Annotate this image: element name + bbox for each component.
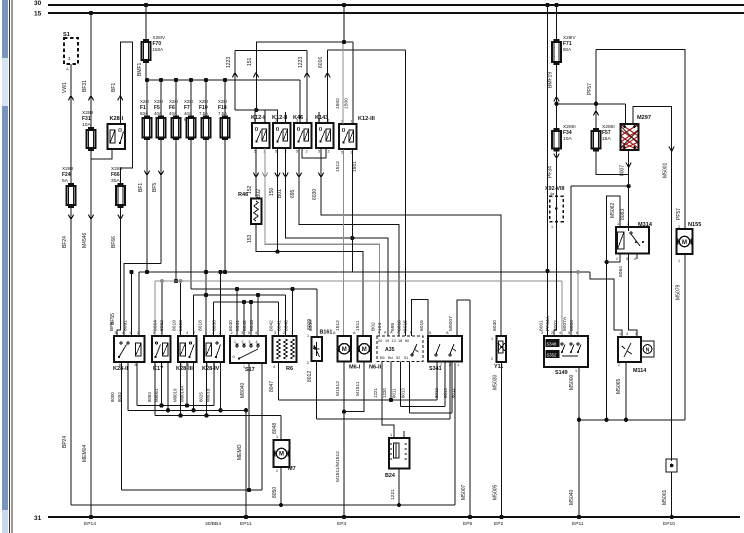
wire BF1 net from F1 to rail bbox=[146, 140, 148, 272]
svg-text:1221: 1221 bbox=[373, 388, 378, 398]
svg-text:4: 4 bbox=[256, 340, 258, 344]
wire PF34 bbox=[556, 151, 558, 197]
wire drop to fuse F1 bbox=[146, 80, 148, 116]
svg-text:R46: R46 bbox=[238, 192, 248, 198]
svg-text:M8018: M8018 bbox=[206, 388, 211, 402]
svg-text:8023: 8023 bbox=[178, 320, 184, 331]
ground connector box bbox=[666, 459, 677, 472]
svg-text:X28I: X28I bbox=[199, 99, 208, 104]
wire BMF19 bbox=[556, 64, 558, 130]
svg-text:5: 5 bbox=[318, 150, 320, 154]
wire 152 from K12-I to R46 bbox=[255, 148, 257, 197]
svg-text:EP14: EP14 bbox=[84, 521, 96, 527]
bridge A35 pin60 to S341 pin5 net 8015 bbox=[412, 300, 429, 337]
fuse F6 bbox=[172, 118, 181, 138]
wire M5001 to bus31 bbox=[671, 472, 673, 517]
wire M314 pin2 down 8084 bbox=[607, 254, 620, 263]
svg-text:8012: 8012 bbox=[434, 388, 439, 398]
svg-text:K28-IV: K28-IV bbox=[202, 366, 220, 372]
svg-text:3: 3 bbox=[541, 331, 543, 335]
svg-text:8083: 8083 bbox=[147, 392, 152, 402]
page border double line bbox=[9, 0, 11, 533]
wire B01 from K12-II to A35 via y238 bbox=[286, 148, 389, 336]
svg-text:F34: F34 bbox=[563, 130, 572, 136]
wire F31 to K28-I pin bbox=[91, 150, 112, 160]
wire Y11 ground M5030 bbox=[501, 362, 503, 517]
svg-text:B02: B02 bbox=[256, 189, 262, 198]
svg-text:6: 6 bbox=[119, 363, 121, 367]
svg-text:10A: 10A bbox=[563, 136, 572, 142]
svg-text:2: 2 bbox=[616, 257, 618, 261]
svg-text:M: M bbox=[279, 452, 284, 458]
wire K143 left pin stub bbox=[318, 112, 320, 123]
svg-text:8013: 8013 bbox=[401, 388, 406, 398]
svg-text:8092: 8092 bbox=[117, 392, 122, 402]
rail y288 bbox=[191, 288, 317, 290]
riser R6 pin3 bbox=[292, 289, 294, 336]
svg-text:M5079: M5079 bbox=[676, 284, 682, 300]
svg-text:5: 5 bbox=[341, 151, 343, 155]
wire from F7 to rail y288 bbox=[190, 140, 192, 289]
svg-text:B24: B24 bbox=[385, 473, 395, 479]
resistor pack R6 bbox=[273, 336, 297, 362]
svg-text:8041: 8041 bbox=[277, 320, 283, 331]
wire from bus 30 to F70 bbox=[144, 3, 148, 7]
svg-text:8016: 8016 bbox=[396, 320, 402, 331]
svg-text:X28I: X28I bbox=[184, 99, 193, 104]
svg-text:8015: 8015 bbox=[403, 320, 409, 331]
fuse F71 bbox=[552, 42, 561, 62]
svg-text:BF24: BF24 bbox=[62, 236, 68, 248]
motor M6-I bbox=[338, 336, 352, 362]
svg-text:1221: 1221 bbox=[390, 489, 396, 500]
switch unit S149 bbox=[544, 336, 588, 367]
svg-text:EP11: EP11 bbox=[572, 521, 584, 527]
svg-text:8011: 8011 bbox=[392, 388, 397, 398]
svg-text:8046: 8046 bbox=[284, 320, 290, 331]
wire BF31 from bus 15 bbox=[89, 11, 93, 15]
svg-text:8084: 8084 bbox=[618, 266, 624, 277]
svg-text:2: 2 bbox=[328, 150, 330, 154]
fuse feed rail y80 bbox=[146, 79, 301, 81]
svg-text:8012: 8012 bbox=[307, 371, 313, 382]
wire F57 feed from rail bbox=[595, 104, 597, 130]
svg-text:M297: M297 bbox=[637, 115, 651, 121]
valve Y11 bbox=[497, 336, 507, 362]
svg-text:30/BB4: 30/BB4 bbox=[205, 521, 221, 527]
svg-text:B5: B5 bbox=[380, 356, 385, 360]
rail BF5 y281 across page gray bbox=[155, 280, 562, 282]
wire S341 pin A to M5007 ground bbox=[457, 300, 470, 336]
wire 8007 M297 out bbox=[628, 150, 630, 231]
svg-text:K143: K143 bbox=[315, 115, 328, 121]
svg-text:EP2: EP2 bbox=[494, 521, 504, 527]
wire M6 motors ground bbox=[343, 362, 345, 518]
wire BF24 bbox=[70, 207, 72, 505]
svg-text:X28I: X28I bbox=[218, 99, 227, 104]
svg-text:5: 5 bbox=[296, 150, 298, 154]
svg-text:8062: 8062 bbox=[159, 320, 165, 331]
svg-text:M: M bbox=[682, 240, 687, 246]
svg-text:BF5: BF5 bbox=[109, 322, 115, 331]
svg-text:B02: B02 bbox=[371, 322, 377, 331]
svg-text:M5040: M5040 bbox=[569, 489, 575, 505]
wire 8009 to B161 bbox=[316, 289, 318, 336]
wire M5062 from M314 pin1 bbox=[607, 196, 620, 420]
wire from F18 bbox=[224, 140, 226, 272]
svg-text:8042: 8042 bbox=[268, 320, 274, 331]
rail y295 bbox=[194, 294, 286, 296]
svg-text:X28I: X28I bbox=[154, 99, 163, 104]
svg-text:1512: 1512 bbox=[335, 320, 341, 331]
svg-text:1: 1 bbox=[551, 225, 553, 229]
svg-text:2: 2 bbox=[283, 331, 285, 335]
svg-text:M5001: M5001 bbox=[663, 162, 669, 178]
svg-text:18: 18 bbox=[398, 339, 402, 343]
svg-text:S17: S17 bbox=[245, 367, 255, 373]
wire rail42 to bus30 bbox=[343, 5, 345, 42]
svg-text:2: 2 bbox=[618, 363, 620, 367]
svg-text:8011: 8011 bbox=[451, 388, 456, 398]
svg-text:150: 150 bbox=[269, 187, 275, 196]
wire R6 bottom 8047 to rail400 bbox=[278, 362, 280, 401]
wire B24 feed from A35 bbox=[382, 362, 394, 439]
svg-text:20: 20 bbox=[378, 339, 382, 343]
fuse F18 bbox=[221, 118, 230, 138]
svg-text:40A: 40A bbox=[154, 111, 162, 116]
wire M7 drop bbox=[280, 467, 282, 505]
svg-text:1: 1 bbox=[390, 433, 392, 437]
svg-text:30: 30 bbox=[34, 0, 42, 7]
riser S149 pin6 bbox=[577, 272, 579, 336]
wire 6030 from K143 to Y11 bbox=[321, 148, 501, 336]
wire VW1 from S1 bbox=[70, 64, 72, 184]
svg-text:8047: 8047 bbox=[269, 381, 275, 392]
svg-text:8004: 8004 bbox=[569, 320, 575, 331]
wire F57 out to 8007 node bbox=[596, 151, 629, 175]
fuse F5 bbox=[157, 118, 166, 138]
wire M297 right pin to M5001 bbox=[633, 107, 672, 462]
svg-text:N155: N155 bbox=[688, 222, 701, 228]
svg-text:2: 2 bbox=[137, 331, 139, 335]
svg-text:PF57: PF57 bbox=[587, 83, 593, 95]
wire BF5 net from F5 bridge to K28-II pin1 bbox=[160, 140, 162, 264]
fuse F34 bbox=[552, 131, 561, 149]
svg-text:BF1: BF1 bbox=[138, 183, 144, 192]
svg-text:3: 3 bbox=[249, 340, 251, 344]
svg-text:F24: F24 bbox=[62, 172, 71, 178]
svg-text:8041: 8041 bbox=[235, 320, 241, 331]
svg-text:BMF1: BMF1 bbox=[137, 62, 143, 76]
svg-text:8042: 8042 bbox=[242, 320, 248, 331]
rails under K-row bbox=[137, 405, 214, 407]
fuse F57 bbox=[592, 131, 601, 149]
motor M7 bbox=[274, 440, 290, 467]
svg-text:1223: 1223 bbox=[226, 57, 232, 68]
risers S17 bbox=[236, 289, 238, 336]
fuse F24 bbox=[67, 186, 76, 205]
wire BMF1 bbox=[145, 62, 147, 80]
svg-text:8036: 8036 bbox=[212, 320, 218, 331]
svg-text:X28I: X28I bbox=[140, 99, 149, 104]
bridge y186 to S149 pin5 bbox=[571, 185, 629, 187]
wire to S149 pin4 bbox=[561, 281, 563, 336]
svg-text:1: 1 bbox=[307, 334, 309, 338]
wire drop to fuse F6 bbox=[175, 80, 177, 116]
rail y406.5 bbox=[401, 406, 446, 408]
risers K-row top bbox=[131, 272, 133, 336]
wire 8001 long drop from bus30 to S149 bbox=[545, 3, 549, 7]
svg-text:1: 1 bbox=[575, 369, 577, 373]
svg-text:5: 5 bbox=[626, 257, 628, 261]
svg-text:2: 2 bbox=[551, 331, 553, 335]
svg-text:5: 5 bbox=[153, 331, 155, 335]
svg-text:1: 1 bbox=[234, 340, 236, 344]
svg-text:2: 2 bbox=[307, 361, 309, 365]
svg-text:4: 4 bbox=[186, 331, 188, 335]
wire drop to fuse F10 bbox=[205, 80, 207, 116]
svg-text:3: 3 bbox=[296, 119, 298, 123]
relay K28-III bbox=[178, 336, 197, 362]
svg-text:M8061: M8061 bbox=[154, 388, 159, 402]
wire from F10 through to K28-IV pin1 bbox=[205, 140, 207, 336]
svg-text:8064: 8064 bbox=[153, 320, 159, 331]
svg-text:15A: 15A bbox=[602, 136, 611, 142]
motor unit M114 bbox=[618, 337, 641, 362]
svg-text:52: 52 bbox=[396, 356, 400, 360]
svg-text:S352: S352 bbox=[547, 353, 557, 358]
rail y419.8 motor grounds bbox=[579, 419, 685, 421]
svg-text:2: 2 bbox=[231, 331, 233, 335]
svg-text:8048: 8048 bbox=[272, 423, 278, 434]
rail y490 bbox=[122, 489, 263, 491]
svg-text:R6: R6 bbox=[286, 366, 293, 372]
wire 695 from K46 to A35 bbox=[299, 148, 399, 336]
svg-text:M5000: M5000 bbox=[569, 374, 575, 390]
svg-text:8083: 8083 bbox=[620, 209, 626, 220]
wire M4546 down to bus 31 bbox=[90, 159, 92, 517]
svg-text:8040: 8040 bbox=[228, 320, 234, 331]
svg-text:150A: 150A bbox=[153, 47, 165, 52]
fuse F7 bbox=[187, 118, 196, 138]
relay K12-I bbox=[252, 123, 270, 148]
svg-text:8000: 8000 bbox=[110, 392, 115, 402]
svg-text:M8014A: M8014A bbox=[180, 386, 185, 402]
wire BF66 to K28-II bbox=[117, 207, 121, 336]
switch S341 bbox=[428, 336, 462, 362]
svg-text:8007A: 8007A bbox=[562, 316, 568, 331]
svg-text:8015: 8015 bbox=[419, 320, 425, 331]
svg-text:3: 3 bbox=[627, 222, 629, 226]
wire 150 from K12-II joins 153 rail bbox=[277, 148, 279, 252]
fuse F70 bbox=[142, 42, 151, 60]
svg-text:M8040: M8040 bbox=[240, 382, 246, 398]
wire S17 pin1 bbox=[248, 363, 250, 490]
svg-text:8091: 8091 bbox=[123, 320, 129, 331]
svg-text:10A: 10A bbox=[82, 122, 91, 128]
svg-text:2: 2 bbox=[491, 357, 493, 361]
svg-text:4: 4 bbox=[255, 331, 257, 335]
wire 1512 gray from K12-III to M6-I bbox=[343, 150, 345, 337]
wire drop to fuse F18 bbox=[224, 80, 226, 116]
relay K46 bbox=[294, 123, 312, 148]
wire K12-II feed from 1223 rail bbox=[254, 108, 258, 112]
wire M314 pin5 to M114 bbox=[629, 254, 637, 338]
svg-text:13: 13 bbox=[392, 339, 396, 343]
svg-text:X28IV: X28IV bbox=[563, 35, 576, 40]
wire 8048 to M7 bbox=[280, 416, 282, 441]
svg-text:60: 60 bbox=[405, 339, 409, 343]
fuse F31 bbox=[87, 130, 96, 148]
wire to K12-III pin 1 bbox=[352, 42, 354, 124]
svg-text:8009: 8009 bbox=[308, 320, 314, 331]
svg-text:M: M bbox=[342, 347, 347, 353]
svg-text:5: 5 bbox=[115, 331, 117, 335]
svg-text:F66: F66 bbox=[111, 172, 120, 178]
rail y418.8 B161 to S341 bbox=[317, 418, 451, 420]
svg-text:3: 3 bbox=[241, 331, 243, 335]
svg-text:1: 1 bbox=[129, 331, 131, 335]
wire bridge under K46 K143 bbox=[302, 148, 326, 158]
wire 1501 from K12-III pin2 bbox=[351, 150, 353, 273]
svg-text:1223: 1223 bbox=[298, 57, 304, 68]
svg-text:4: 4 bbox=[273, 365, 275, 369]
wire M297 left pin bbox=[624, 104, 626, 124]
svg-text:M1511: M1511 bbox=[355, 381, 361, 396]
svg-text:2: 2 bbox=[276, 469, 278, 473]
wire MEMO to bus31 bbox=[245, 410, 247, 517]
svg-text:2: 2 bbox=[242, 340, 244, 344]
svg-text:M5005: M5005 bbox=[493, 484, 499, 500]
wire 1502 gray riser K12-III bbox=[342, 44, 344, 124]
svg-text:2: 2 bbox=[306, 150, 308, 154]
svg-text:M5030: M5030 bbox=[493, 374, 499, 390]
rail BF1 y272 across page bbox=[139, 271, 590, 273]
svg-text:B161: B161 bbox=[320, 330, 333, 336]
wire S149 pin1 ground bbox=[578, 367, 580, 517]
control unit A35 dashed bbox=[377, 336, 423, 362]
svg-text:4: 4 bbox=[212, 331, 214, 335]
svg-text:BF31: BF31 bbox=[82, 80, 88, 92]
svg-text:PF34: PF34 bbox=[548, 166, 554, 178]
wire M5079 from N155 bbox=[684, 254, 686, 420]
svg-text:6: 6 bbox=[576, 331, 578, 335]
svg-text:8050: 8050 bbox=[272, 487, 278, 498]
svg-text:6016: 6016 bbox=[318, 57, 324, 68]
svg-text:5A: 5A bbox=[62, 178, 69, 184]
svg-text:1220: 1220 bbox=[382, 388, 387, 398]
svg-text:1: 1 bbox=[457, 363, 459, 367]
wire 1223 bridge bbox=[235, 50, 307, 52]
svg-text:M1512: M1512 bbox=[335, 381, 341, 396]
svg-text:4: 4 bbox=[122, 331, 124, 335]
svg-text:8013: 8013 bbox=[443, 388, 448, 398]
svg-text:3: 3 bbox=[161, 331, 163, 335]
svg-text:B01: B01 bbox=[277, 189, 283, 198]
svg-text:8019: 8019 bbox=[172, 320, 178, 331]
relay K17 bbox=[152, 336, 171, 362]
svg-text:MEM04: MEM04 bbox=[82, 445, 88, 462]
svg-text:1500: 1500 bbox=[344, 98, 350, 109]
relay K143 bbox=[316, 123, 334, 148]
svg-text:K28-I: K28-I bbox=[110, 116, 124, 122]
svg-text:1: 1 bbox=[291, 331, 293, 335]
svg-text:M1511/M1512: M1511/M1512 bbox=[335, 451, 341, 482]
svg-text:M5007: M5007 bbox=[448, 316, 454, 331]
svg-text:1: 1 bbox=[617, 222, 619, 226]
relay K12-III bbox=[339, 124, 357, 149]
fuse F1 bbox=[143, 118, 152, 138]
svg-text:5: 5 bbox=[275, 150, 277, 154]
svg-text:8001: 8001 bbox=[539, 320, 545, 331]
svg-text:Bd: Bd bbox=[388, 356, 393, 360]
svg-text:BP24: BP24 bbox=[62, 436, 68, 448]
wire BF1 loop over K28-I bbox=[120, 42, 132, 184]
svg-text:5: 5 bbox=[248, 331, 250, 335]
wire drop to fuse F5 bbox=[160, 80, 162, 116]
svg-text:M4546: M4546 bbox=[82, 232, 88, 248]
fuse F66 bbox=[116, 186, 125, 205]
wire from F6 bbox=[175, 140, 177, 281]
svg-text:BMF19: BMF19 bbox=[548, 72, 554, 88]
svg-text:51: 51 bbox=[404, 356, 408, 360]
svg-text:K12-III: K12-III bbox=[358, 116, 375, 122]
svg-text:5: 5 bbox=[429, 331, 431, 335]
svg-text:EP4: EP4 bbox=[337, 521, 347, 527]
svg-text:EP5: EP5 bbox=[463, 521, 473, 527]
svg-text:4: 4 bbox=[634, 257, 636, 261]
motor N6-II bbox=[358, 336, 372, 362]
svg-text:S348: S348 bbox=[547, 342, 557, 347]
rail y400 bbox=[279, 399, 438, 401]
svg-text:N6-II: N6-II bbox=[369, 365, 382, 371]
svg-text:K46: K46 bbox=[293, 115, 303, 121]
svg-text:X28I: X28I bbox=[169, 99, 178, 104]
svg-text:4: 4 bbox=[626, 332, 628, 336]
left sidebar scrollbar bbox=[2, 0, 8, 58]
svg-text:X28IV: X28IV bbox=[153, 35, 166, 40]
svg-text:1501: 1501 bbox=[352, 161, 358, 172]
svg-text:8018: 8018 bbox=[198, 320, 204, 331]
sensor B24 bbox=[389, 438, 410, 469]
relay K12-II bbox=[273, 123, 291, 148]
svg-text:80A: 80A bbox=[563, 47, 572, 52]
svg-text:M5001: M5001 bbox=[662, 489, 668, 505]
svg-text:5: 5 bbox=[568, 331, 570, 335]
svg-text:N: N bbox=[646, 347, 650, 353]
svg-text:6030: 6030 bbox=[312, 189, 318, 200]
wire 8016 long drop to A35 bbox=[404, 50, 406, 336]
svg-text:1: 1 bbox=[276, 435, 278, 439]
svg-text:BF1: BF1 bbox=[111, 83, 117, 92]
svg-text:8025: 8025 bbox=[199, 392, 204, 402]
rail y505 ground bbox=[71, 504, 455, 506]
svg-text:8030: 8030 bbox=[492, 320, 498, 331]
svg-text:MEMO: MEMO bbox=[237, 444, 243, 460]
svg-text:695: 695 bbox=[290, 189, 296, 198]
wire 6016 rail y50 bbox=[327, 50, 329, 123]
svg-text:1: 1 bbox=[243, 365, 245, 369]
svg-text:7,5A: 7,5A bbox=[218, 111, 227, 116]
fuse F10 bbox=[202, 118, 211, 138]
relay K28-I bbox=[108, 124, 126, 149]
svg-text:M114: M114 bbox=[633, 368, 646, 374]
svg-text:EP10: EP10 bbox=[663, 521, 675, 527]
svg-text:3: 3 bbox=[179, 331, 181, 335]
svg-text:1: 1 bbox=[205, 331, 207, 335]
svg-text:1: 1 bbox=[491, 337, 493, 341]
svg-text:7,5A: 7,5A bbox=[199, 111, 208, 116]
